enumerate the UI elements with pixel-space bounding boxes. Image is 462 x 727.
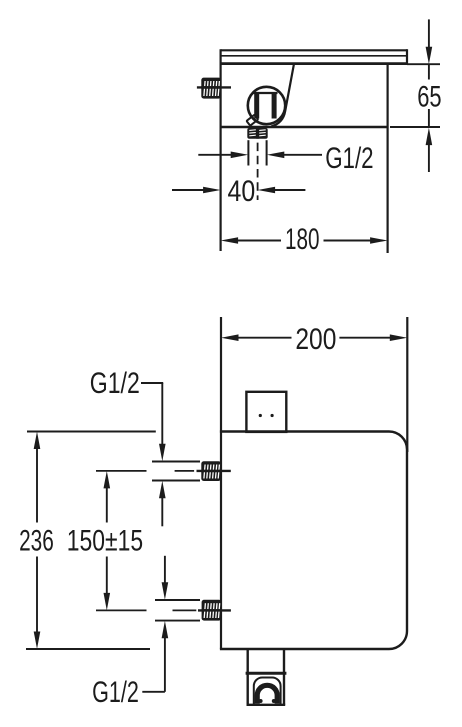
lower connector thread block: [202, 600, 222, 621]
svg-text:40: 40: [228, 175, 256, 208]
svg-text:G1/2: G1/2: [92, 676, 139, 709]
holder inner arch: [254, 678, 281, 705]
dimension 180: [221, 237, 388, 244]
handset holder cup sides: [248, 675, 284, 705]
svg-text:65: 65: [417, 80, 441, 113]
spout diagonal profile: [271, 65, 294, 127]
upper connector edge extension lines: [152, 462, 200, 481]
mounting bracket on top of body: [246, 392, 286, 432]
deck plate bottom line: [220, 62, 408, 65]
body left edge + extension line: [220, 49, 222, 251]
upper connector centerline: [96, 470, 231, 472]
deck plate mid line: [221, 55, 407, 57]
inlet centerline stub: [197, 86, 231, 88]
svg-text:180: 180: [285, 223, 320, 256]
deck plate top line: [221, 49, 407, 51]
svg-text:200: 200: [295, 323, 336, 356]
handle cylinder inside valve: [254, 93, 278, 119]
leader G1/2 upper: [141, 383, 166, 461]
svg-text:236: 236: [19, 525, 54, 558]
handset holder cup bottom: [247, 704, 286, 706]
dimension G1/2 (top view) leader arrows: [198, 152, 322, 159]
svg-text:G1/2: G1/2: [90, 367, 140, 400]
outlet thread block (below body): [247, 128, 267, 139]
extension line body top (left, for 236): [27, 431, 156, 433]
dimension 65 vertical: [426, 19, 433, 172]
dimension 200: [221, 334, 407, 341]
outlet pipe left edge: [247, 140, 249, 165]
handset holder divider: [246, 672, 287, 675]
dimension 236: [34, 432, 41, 650]
wall line (left edge of body, extended up): [220, 317, 222, 649]
body bottom line: [220, 126, 388, 128]
label G1/2 (upper): [90, 367, 140, 400]
label 200: [295, 323, 336, 356]
leader G1/2 lower: [142, 621, 168, 692]
upper connector lower arrow (G1/2 pair): [159, 481, 166, 527]
label 180: [285, 223, 320, 256]
handset holder stem left: [246, 649, 248, 673]
svg-text:150±15: 150±15: [67, 525, 143, 558]
svg-text:G1/2: G1/2: [325, 142, 373, 175]
label 65: [417, 80, 441, 113]
lower connector edge extension lines: [155, 600, 200, 621]
body outline (rounded right side): [220, 432, 407, 650]
valve circle: [248, 87, 285, 124]
extension line body bottom (left, for 236): [26, 648, 150, 650]
deck plate right edge: [406, 49, 408, 64]
bracket dot left: [259, 414, 262, 417]
extension line 65 top (plate underside extended): [407, 63, 440, 65]
bracket dot right: [271, 414, 274, 417]
handset holder stem right: [283, 649, 285, 673]
lower connector centerline: [96, 609, 231, 611]
outlet pipe right edge: [266, 140, 268, 165]
small tab at valve bottom-left: [247, 115, 259, 126]
label 40: [228, 175, 256, 208]
body right edge + extension line: [387, 65, 389, 253]
label G1/2 (top view): [325, 142, 373, 175]
handset clip ring: [255, 683, 280, 704]
extension line 65 bottom (body underside extended): [390, 126, 440, 128]
upper connector thread block: [201, 461, 221, 481]
dimension 150±15: [104, 471, 111, 611]
dimension 40: [172, 187, 305, 194]
inlet thread block (left): [201, 78, 221, 99]
lower connector upper arrow (G1/2 pair): [162, 556, 169, 600]
label G1/2 (lower): [92, 676, 139, 709]
outlet centerline (dashed): [257, 139, 259, 200]
label 150±15: [67, 525, 143, 558]
label 236: [19, 525, 54, 558]
right extension line of 200: [406, 317, 408, 452]
